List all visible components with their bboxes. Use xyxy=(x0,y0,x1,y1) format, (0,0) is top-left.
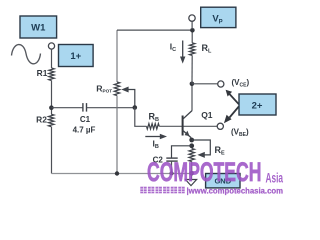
ground stub xyxy=(191,174,193,180)
resistor RL wire from rail xyxy=(191,30,193,43)
scope channel box 2+ xyxy=(239,94,276,115)
current arrow IB xyxy=(145,136,160,138)
wire VP terminal stub xyxy=(191,21,193,29)
svg-text:R2: R2 xyxy=(36,115,47,125)
VBE terminal circle xyxy=(217,123,223,129)
watermark CJK glyph blocks xyxy=(140,187,184,194)
capacitor C1 xyxy=(82,103,84,112)
wire C2 to rail xyxy=(171,161,173,173)
potentiometer RPOT xyxy=(114,82,119,96)
emitter junction lower xyxy=(189,143,194,148)
collector wire up to junction xyxy=(191,84,193,111)
svg-text:4.7 µF: 4.7 µF xyxy=(73,125,96,134)
VCE terminal circle xyxy=(218,81,224,87)
probe arrow to VCE xyxy=(229,94,239,105)
resistor R2 xyxy=(49,114,54,126)
current arrow IC xyxy=(182,41,184,58)
wiper arrow of RPOT xyxy=(127,90,135,108)
wire circle to R1 xyxy=(51,49,53,68)
junction VP xyxy=(190,28,195,33)
resistor R1 xyxy=(49,68,54,81)
supply label box VP xyxy=(201,7,236,27)
resistor RE xyxy=(189,149,194,162)
RE wiper loop xyxy=(192,140,211,155)
junction node B xyxy=(133,105,138,110)
svg-text:W1: W1 xyxy=(31,23,46,34)
potentiometer branch wire top xyxy=(116,30,118,82)
wire RB to base and on to VBE terminal xyxy=(159,125,217,127)
svg-text:1+: 1+ xyxy=(70,51,81,62)
resistor RL xyxy=(190,43,195,56)
capacitor C2 xyxy=(166,157,177,159)
potentiometer branch wire bottom xyxy=(116,96,118,174)
wire RL to collector junction xyxy=(191,55,193,83)
wire to VCE terminal xyxy=(192,83,218,85)
svg-text:C1: C1 xyxy=(80,115,91,124)
scope channel box 1+ xyxy=(59,45,94,67)
VP terminal circle xyxy=(189,15,195,21)
probe arrow to VBE xyxy=(230,107,239,118)
wire RE to rail xyxy=(191,162,193,174)
junction node A xyxy=(49,105,54,110)
bottom ground rail xyxy=(52,173,192,175)
scope channel box W1 xyxy=(20,16,57,38)
wire R1 to node A xyxy=(51,81,53,115)
junction C2 / rail xyxy=(170,171,174,175)
resistor RB xyxy=(147,124,160,129)
svg-text:R1: R1 xyxy=(37,68,48,78)
junction collector / VCE tap xyxy=(190,82,195,87)
wire R2 to bottom rail xyxy=(51,127,53,174)
emitter junction upper xyxy=(189,138,194,143)
svg-text:Asia: Asia xyxy=(266,171,284,186)
junction RE / rail xyxy=(189,171,194,176)
Q1 collector diagonal xyxy=(183,111,192,120)
wire node A to C1 xyxy=(51,107,83,109)
sine source W1 symbol xyxy=(12,45,41,64)
svg-text:|www.compotechasia.com: |www.compotechasia.com xyxy=(187,187,284,196)
ground symbol xyxy=(185,180,196,186)
wire node B down to base level xyxy=(135,108,147,127)
Q1 emitter diagonal with arrow xyxy=(183,130,192,138)
transistor Q1 base bar xyxy=(182,116,184,136)
ground label box GND xyxy=(206,174,240,188)
wire emitter lower dot to C2 xyxy=(172,146,192,158)
junction pot branch / bottom rail xyxy=(115,171,119,175)
top rail xyxy=(117,29,193,31)
wire C1 to node B xyxy=(87,107,135,109)
svg-text:COMPOTECH: COMPOTECH xyxy=(147,157,262,187)
svg-text:2+: 2+ xyxy=(252,101,263,112)
svg-text:Q1: Q1 xyxy=(201,110,213,120)
node terminal circle at source xyxy=(48,43,54,49)
